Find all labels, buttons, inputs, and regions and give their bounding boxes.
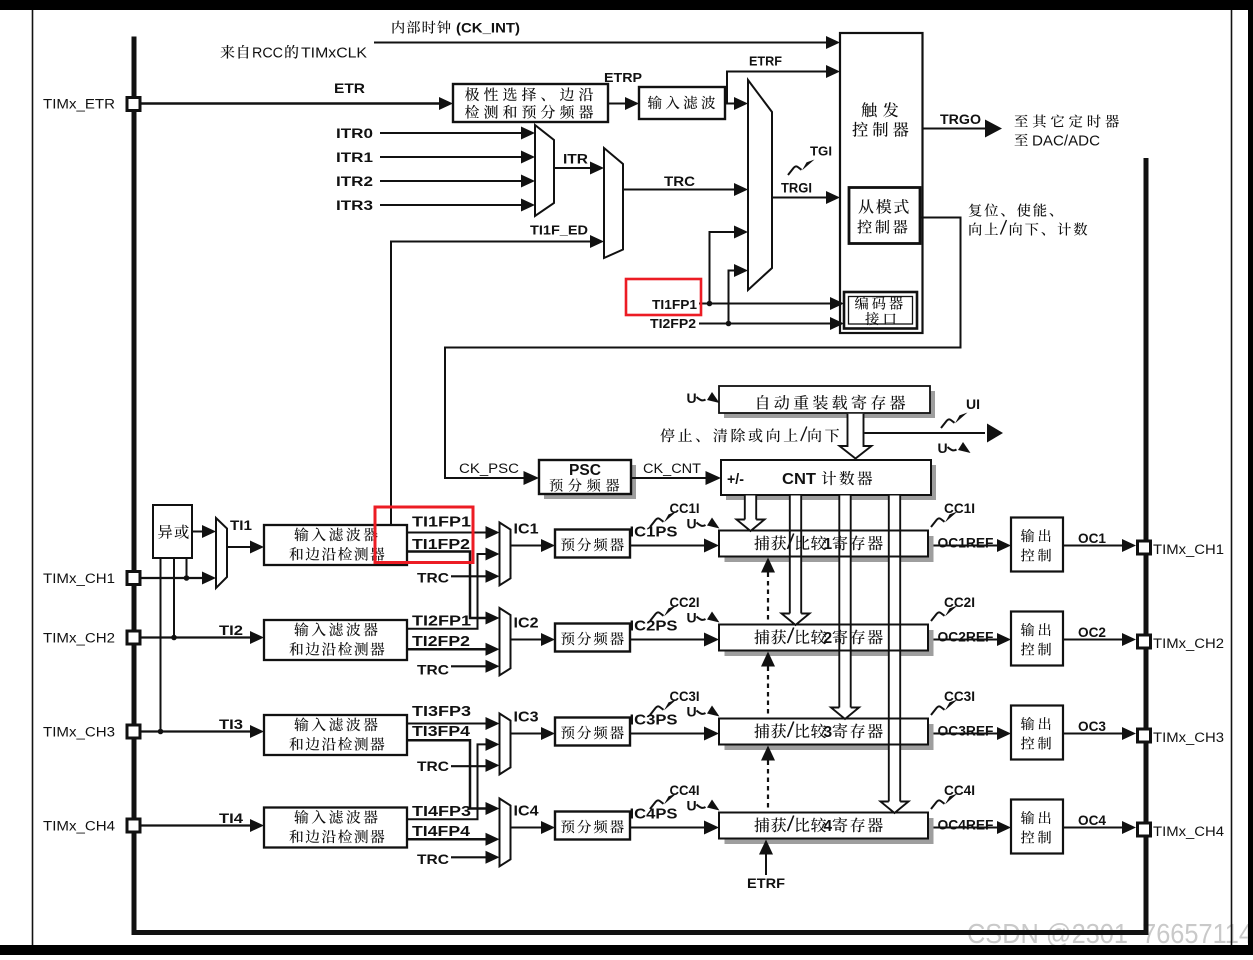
U marker row 1: [687, 516, 720, 532]
text capture/compare 1 register: [754, 536, 826, 551]
box trigger controller: [840, 33, 923, 333]
svg-text:OC1: OC1: [1078, 531, 1106, 546]
svg-text:ITR1: ITR1: [336, 150, 374, 165]
U marker row 2: [687, 610, 720, 626]
hollow arrow CNT to register 3: [838, 496, 840, 708]
svg-text:TI3FP4: TI3FP4: [412, 723, 471, 740]
svg-text:TRC: TRC: [417, 758, 449, 774]
wire TIMx_CH1 to TI1 mux: [141, 577, 204, 579]
wire ETRF to trigger controller: [727, 72, 828, 104]
page border right line: [1231, 10, 1233, 945]
svg-text:ITR0: ITR0: [336, 126, 373, 141]
svg-text:IC2: IC2: [514, 615, 539, 632]
box output control 4: [1011, 800, 1063, 854]
dashed arrow register 2 to register 1: [761, 558, 775, 573]
svg-text:TI1FP1: TI1FP1: [652, 297, 697, 312]
wire TI1FP2 riser down: [407, 552, 488, 619]
box output control 3: [1011, 706, 1063, 760]
svg-text:RCC: RCC: [252, 46, 283, 62]
mux IC4 selector: [500, 799, 511, 867]
svg-text:TI2FP1: TI2FP1: [412, 613, 471, 630]
wire IC1: [511, 545, 544, 547]
mux TRC selector: [604, 148, 623, 258]
svg-text:ITR: ITR: [563, 152, 588, 167]
wire OC2REF: [928, 639, 999, 641]
svg-text:TRGO: TRGO: [940, 112, 981, 127]
svg-text:CC1I: CC1I: [670, 501, 700, 516]
dashed arrow register 4 to register 3: [761, 746, 775, 761]
wire IC2: [511, 639, 544, 641]
wire TRGO: [923, 128, 987, 130]
box prescaler row 4: [555, 812, 630, 840]
svg-text:OC4: OC4: [1078, 813, 1106, 828]
box CNT counter with shadow: [726, 465, 936, 500]
wire TI3FP3: [407, 723, 487, 725]
event flag CC4I (right): [931, 794, 958, 810]
svg-text:TIMx_CH3: TIMx_CH3: [1153, 730, 1224, 745]
svg-text:TIMx_CH3: TIMx_CH3: [43, 725, 115, 740]
frame bottom black bar: [0, 945, 1253, 955]
hollow arrow CNT to register 2: [789, 496, 791, 614]
svg-text:TIMx_CH4: TIMx_CH4: [43, 819, 116, 834]
wire ETRF into register 4: [759, 840, 773, 855]
label stop clear or up/down: [660, 428, 797, 442]
svg-text:ETR: ETR: [334, 80, 365, 96]
svg-text:CC3I: CC3I: [944, 689, 975, 704]
box input filter & edge detector 3: [264, 715, 407, 755]
wire OC1REF: [928, 545, 999, 547]
svg-text:CC2I: CC2I: [944, 595, 975, 610]
event flag CC4I (left): [650, 794, 677, 810]
white channel of CNT arrow 2: [790, 496, 801, 614]
wire IC3PS: [630, 733, 707, 735]
wire ETRP: [608, 103, 627, 105]
svg-text:TI1FP1: TI1FP1: [412, 514, 471, 531]
wire ITR: [554, 167, 592, 169]
pad TIMx_CH3 (right): [1138, 729, 1151, 742]
svg-text:TIMx_CH2: TIMx_CH2: [43, 631, 115, 646]
svg-text:OC3: OC3: [1078, 719, 1106, 734]
svg-text:3: 3: [824, 724, 833, 741]
label 来自RCC的TIMxCLK: [221, 45, 249, 59]
white channel of CNT arrow 3: [839, 496, 850, 708]
wire TI1FP1 to encoder: [699, 303, 832, 305]
wire TRC to trigger mux: [623, 189, 736, 191]
pad TIMx_CH1 (right): [1138, 541, 1151, 554]
svg-text:TGI: TGI: [810, 144, 832, 159]
pad TIMx_CH2 (right): [1138, 635, 1151, 648]
box capture/compare register 3: [719, 719, 928, 745]
svg-text:CK_CNT: CK_CNT: [643, 461, 701, 476]
box capture/compare register 4: [719, 813, 928, 839]
svg-text:ETRP: ETRP: [604, 70, 642, 85]
svg-text:TIMx_CH1: TIMx_CH1: [1153, 542, 1224, 557]
label reset enable updown count: [969, 203, 1053, 216]
event flag TGI: [788, 160, 815, 176]
wire TI4 from pad to filter: [141, 824, 252, 826]
shadow of capture/compare register 2: [725, 630, 934, 656]
svg-text:TRC: TRC: [417, 570, 449, 586]
svg-text:TRC: TRC: [417, 851, 449, 867]
wire TI3FP4 riser down: [407, 740, 488, 808]
page border left line: [32, 10, 34, 945]
wire TI4FP3 riser up: [407, 744, 488, 819]
U marker row 3: [687, 704, 720, 720]
wire TI1F_ED: [391, 242, 592, 526]
frame right black bar: [1248, 0, 1253, 955]
svg-text:ETRF: ETRF: [749, 54, 782, 69]
box output control 1: [1011, 518, 1063, 572]
wire IC1PS: [630, 545, 707, 547]
svg-text:TI1F_ED: TI1F_ED: [530, 223, 588, 238]
svg-text:CNT: CNT: [782, 471, 817, 488]
white channel of CNT arrow 4: [889, 496, 900, 802]
event flag UI: [941, 413, 968, 429]
box output control 2: [1011, 612, 1063, 666]
svg-text:TIMxCLK: TIMxCLK: [301, 46, 367, 62]
svg-text:TIMx_CH4: TIMx_CH4: [1153, 824, 1225, 839]
svg-text:ITR2: ITR2: [336, 174, 373, 189]
svg-text:TI1: TI1: [230, 517, 252, 533]
event flag CC1I (right): [931, 512, 958, 528]
svg-text:TI2FP2: TI2FP2: [650, 316, 696, 331]
svg-text:4: 4: [824, 818, 833, 835]
svg-text:TRC: TRC: [417, 662, 449, 678]
mux TI1 selector: [216, 518, 227, 588]
box prescaler row 2: [555, 624, 630, 652]
svg-text:TI4FP3: TI4FP3: [412, 803, 471, 820]
shadow of capture/compare register 4: [725, 818, 934, 844]
wire TI2FP2 riser to trigger mux: [729, 271, 737, 324]
box input filter: [639, 87, 725, 119]
svg-text:IC4: IC4: [514, 803, 540, 820]
svg-text:TI3FP3: TI3FP3: [412, 703, 471, 720]
svg-text:1: 1: [824, 536, 833, 553]
U marker row 4: [687, 798, 720, 814]
svg-text:IC1PS: IC1PS: [630, 524, 678, 541]
box capture/compare register 2: [719, 625, 928, 651]
svg-text:TI1FP2: TI1FP2: [412, 536, 470, 553]
svg-text:DAC/ADC: DAC/ADC: [1032, 134, 1100, 150]
svg-text:TI4FP4: TI4FP4: [412, 823, 471, 840]
text capture/compare 3 register: [754, 724, 826, 739]
svg-text:OC2REF: OC2REF: [938, 630, 994, 645]
svg-text:OC1REF: OC1REF: [938, 536, 994, 551]
event flag CC3I (left): [650, 700, 677, 716]
wire TI2FP2 to encoder: [699, 323, 832, 325]
svg-text:CC1I: CC1I: [944, 501, 975, 516]
box input filter & edge detector 4: [264, 808, 407, 848]
box prescaler row 3: [555, 718, 630, 746]
box XOR 异或: [153, 505, 192, 558]
white channel of CNT arrow 1: [745, 496, 756, 520]
wire OC4REF: [928, 827, 999, 829]
svg-text:IC4PS: IC4PS: [630, 806, 678, 823]
wire reset enable up-down count to CK_PSC: [445, 218, 961, 479]
svg-text:CK_PSC: CK_PSC: [459, 461, 519, 476]
svg-text:OC4REF: OC4REF: [938, 818, 994, 833]
svg-text:UI: UI: [966, 397, 980, 412]
wire TI3 from pad to filter: [141, 730, 252, 732]
shadow of capture/compare register 1: [725, 536, 934, 562]
wire IC2PS: [630, 639, 707, 641]
label to other timers / DAC ADC: [1015, 115, 1119, 128]
event flag CC1I (left): [650, 512, 677, 528]
wire TI2FP1 riser up: [407, 554, 488, 629]
mux ITR selector: [535, 125, 554, 216]
wire TI4FP4: [407, 838, 487, 841]
text capture/compare 4 register: [754, 818, 826, 833]
box input filter & edge detector 1: [264, 525, 407, 565]
event flag CC2I (left): [650, 606, 677, 622]
wire OC3REF: [928, 733, 999, 735]
label internal clock CK_INT: [393, 21, 451, 34]
box slave mode controller: [849, 188, 920, 244]
svg-text:TI2FP2: TI2FP2: [412, 633, 470, 650]
svg-text:CC4I: CC4I: [670, 783, 700, 798]
wire IC4: [511, 827, 544, 829]
box input filter & edge detector 2: [264, 620, 407, 660]
svg-text:TRGI: TRGI: [781, 181, 812, 196]
red annotation box around TI1FP1/TI1FP2 (row 1): [375, 507, 473, 563]
svg-text:ETRF: ETRF: [747, 875, 785, 891]
wire OC2: [1063, 639, 1124, 641]
mux trigger input selector (tall): [748, 80, 772, 290]
update U marker at ARR: [687, 390, 720, 406]
svg-text:TI4: TI4: [219, 810, 243, 826]
svg-text:TRC: TRC: [664, 174, 695, 189]
wire update event to right: [865, 432, 986, 434]
svg-text:(CK_INT): (CK_INT): [456, 21, 520, 36]
wire TI1 to input filter 1: [227, 546, 252, 548]
wire CK_INT to trigger controller: [374, 42, 828, 44]
hollow arrow ARR to CNT: [840, 414, 872, 459]
box polarity selection edge detector prescaler: [453, 84, 608, 122]
svg-text:TI3: TI3: [219, 716, 243, 732]
svg-text:OC2: OC2: [1078, 625, 1106, 640]
svg-text:CC4I: CC4I: [944, 783, 975, 798]
wire CK_CNT: [631, 477, 709, 479]
mux IC1 selector: [500, 523, 511, 586]
shadow of capture/compare register 3: [725, 724, 934, 750]
dashed arrow register 3 to register 2: [761, 652, 775, 667]
box capture/compare register 1: [719, 531, 928, 557]
svg-text:IC1: IC1: [514, 521, 539, 538]
svg-text:TIMx_ETR: TIMx_ETR: [43, 97, 115, 112]
wire TI2FP2: [407, 648, 487, 651]
wire XOR input risers: [160, 558, 162, 731]
hollow arrow CNT to register 1: [744, 496, 746, 520]
wire TI1FP1 riser to trigger mux: [710, 232, 737, 304]
wire filter output to ETRF mux: [725, 103, 736, 105]
pad TIMx_CH4 (right): [1138, 823, 1151, 836]
U marker on event line: [938, 440, 971, 456]
wire XOR output: [192, 531, 204, 533]
red annotation box around TI1FP1 (top): [626, 279, 701, 315]
wire TRGI: [772, 197, 828, 199]
svg-text:TIMx_CH1: TIMx_CH1: [43, 571, 115, 586]
svg-text:ITR3: ITR3: [336, 198, 374, 213]
svg-text:+/-: +/-: [727, 471, 744, 488]
box PSC prescaler with shadow: [544, 465, 636, 499]
text capture/compare 2 register: [754, 630, 826, 645]
wire OC4: [1063, 827, 1124, 829]
svg-text:IC3PS: IC3PS: [630, 712, 678, 729]
svg-text:CC2I: CC2I: [670, 595, 700, 610]
svg-text:2: 2: [824, 630, 833, 647]
svg-text:CC3I: CC3I: [670, 689, 700, 704]
box auto-reload register with shadow: [724, 391, 935, 418]
svg-text:OC3REF: OC3REF: [938, 724, 994, 739]
wire TI2 from pad to filter: [141, 636, 252, 638]
wire IC3: [511, 733, 544, 735]
svg-text:IC3: IC3: [514, 709, 539, 726]
wire ETR: [141, 102, 441, 104]
wire OC1: [1063, 545, 1124, 547]
box encoder interface: [844, 292, 917, 329]
event flag CC3I (right): [931, 700, 958, 716]
mux IC2 selector: [500, 608, 511, 675]
frame top black bar: [0, 0, 1253, 10]
hollow arrow CNT to register 4: [888, 496, 890, 802]
wire IC4PS: [630, 827, 707, 829]
svg-text:TI2: TI2: [219, 622, 243, 638]
wire OC3: [1063, 733, 1124, 735]
svg-text:PSC: PSC: [569, 462, 601, 479]
wire TI1FP1: [407, 532, 487, 534]
left I/O bus + bottom bus + right I/O bus (thick): [134, 37, 1146, 933]
mux IC3 selector: [500, 714, 511, 775]
svg-text:IC2PS: IC2PS: [630, 618, 678, 635]
box prescaler row 1: [555, 530, 630, 558]
svg-text:TIMx_CH2: TIMx_CH2: [1153, 636, 1224, 651]
event flag CC2I (right): [931, 606, 958, 622]
